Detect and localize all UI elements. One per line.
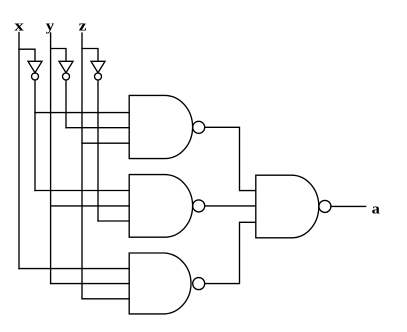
- wire gate2 output to gate4 input 2: [205, 205, 256, 207]
- wire y branch to inverter: [51, 49, 66, 62]
- wire y' to gate1 input 2: [66, 127, 129, 129]
- inverter for z (bubble): [95, 73, 102, 80]
- wire gate4 output: [331, 205, 366, 207]
- inverter for z (triangle): [91, 61, 105, 72]
- NAND gate 3 body: [129, 253, 191, 314]
- svg-text:y: y: [46, 18, 54, 34]
- wire gate1 output to gate4 input 1: [205, 127, 256, 190]
- NAND gate 1 bubble: [193, 121, 205, 133]
- wire x branch to inverter: [19, 49, 35, 61]
- svg-text:a: a: [372, 201, 380, 217]
- wire x input rail: [18, 33, 20, 269]
- NAND gate 1 body: [129, 95, 192, 158]
- NAND gate 2 body: [129, 175, 192, 238]
- NAND gate 4 bubble: [319, 200, 331, 212]
- wire z' rail: [97, 80, 99, 221]
- wire x' to gate2 input 1: [35, 190, 129, 192]
- wire y to gate2 input 2: [51, 205, 130, 207]
- wire z to gate1 input 3: [82, 142, 129, 144]
- NAND gate 4 body: [256, 175, 319, 238]
- NAND gate 3 bubble: [193, 278, 205, 290]
- inverter for y (triangle): [59, 61, 73, 72]
- wire x' to gate1 input 1: [35, 112, 129, 114]
- wire z to gate3 input 3: [82, 298, 129, 300]
- wire gate3 output to gate4 input 3: [205, 222, 256, 283]
- inverter for y (bubble): [63, 73, 70, 80]
- wire y input rail: [50, 33, 52, 284]
- wire y' rail: [65, 80, 67, 128]
- wire x' rail: [34, 80, 36, 191]
- wire y to gate3 input 2: [51, 283, 130, 285]
- svg-text:x: x: [14, 18, 24, 34]
- wire z branch to inverter: [82, 49, 98, 62]
- svg-text:z: z: [79, 19, 87, 35]
- inverter for x (triangle): [28, 61, 42, 72]
- NAND gate 2 bubble: [193, 200, 205, 212]
- inverter for x (bubble): [32, 73, 39, 80]
- wire z' to gate2 input 3: [98, 220, 129, 222]
- wire x to gate3 input 1: [19, 268, 129, 270]
- wire z input rail: [81, 33, 83, 299]
